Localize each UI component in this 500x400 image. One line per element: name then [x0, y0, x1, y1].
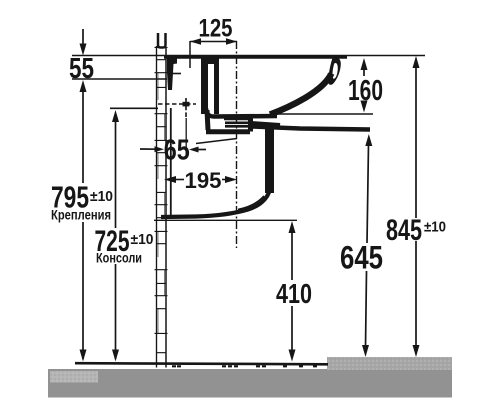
svg-text:Крепления: Крепления	[51, 208, 111, 223]
svg-text:645: 645	[340, 240, 383, 276]
bolt cross vertical	[185, 98, 187, 117]
dim 55 upper arrow	[82, 29, 84, 45]
bowl inner curve	[270, 74, 331, 115]
dim 725 down arrow	[112, 350, 119, 362]
dim 795 line lower	[82, 222, 84, 359]
svg-text:±10: ±10	[131, 231, 154, 248]
svg-text:160: 160	[348, 75, 383, 107]
dim 725 line lower	[115, 264, 117, 359]
dim 125 right arrow	[226, 38, 237, 45]
wall brick joints	[155, 47, 168, 352]
shroud back edge at wall	[170, 108, 172, 217]
shroud curve	[161, 183, 271, 217]
flange step tick	[172, 73, 181, 75]
dim 160 lower shaft	[363, 101, 365, 104]
dim 410 lower line	[291, 306, 293, 352]
wall fixing channel (u-shape above rim)	[158, 33, 166, 48]
dim 845 down arrow	[413, 345, 420, 357]
svg-text:±10: ±10	[424, 220, 446, 236]
bolt axis dashed line	[158, 103, 196, 105]
dim 725 up arrow	[112, 110, 119, 122]
dim 410 down arrow	[289, 350, 296, 362]
extension line x188.5 at 65 dim	[185, 118, 187, 158]
dim 645 up arrow	[365, 134, 372, 146]
basin back hanging flange	[167, 57, 177, 90]
dim 725 line upper	[115, 120, 117, 228]
drain flange stack	[224, 118, 249, 121]
dim 645 down arrow	[362, 345, 369, 357]
dim 160 up arrow	[361, 58, 368, 70]
dim 65 left outside arrow	[140, 148, 157, 150]
basin back inner wall	[201, 58, 208, 114]
basin bottom outer thick	[251, 127, 370, 130]
dim 795 line upper	[82, 90, 84, 183]
trap pipe vertical	[265, 128, 274, 193]
dim 195 line	[170, 179, 184, 181]
wall right line (wall face)	[165, 47, 167, 368]
wall left line	[156, 46, 158, 368]
svg-text:125: 125	[199, 15, 233, 43]
svg-text:845: 845	[386, 214, 422, 247]
basin rim top thick	[164, 55, 347, 59]
floor slab gray	[48, 369, 452, 398]
basin back outer wall	[214, 64, 219, 114]
floor hatch dashes	[172, 365, 317, 367]
svg-text:410: 410	[276, 278, 312, 309]
drain boss outline	[206, 110, 251, 132]
dim 160 down arrow	[361, 101, 368, 113]
extension line pedestal bottom (410/645 upper)	[154, 219, 297, 221]
svg-text:65: 65	[164, 135, 190, 167]
dim 845 lower line	[415, 241, 417, 347]
dim 795 down arrow	[80, 350, 87, 362]
shroud inner curve	[238, 196, 264, 210]
dim 195 left arrow	[164, 176, 176, 183]
front rim bead with hole	[328, 57, 341, 85]
floor light patch left	[50, 371, 98, 383]
dim 410 up arrow	[289, 221, 296, 233]
back wall top join	[201, 58, 219, 64]
extension line x190 upper (125 left / 65 right)	[189, 41, 191, 68]
svg-text:55: 55	[69, 53, 94, 85]
dim 125 left arrow	[190, 38, 201, 45]
wall brick inner edges	[158, 73, 165, 333]
extension line rim top (55 upper / 845 upper)	[72, 55, 425, 57]
drain centerline dash-dot	[236, 41, 238, 248]
dim 195 right arrow	[225, 176, 237, 183]
bowl bottom inner line at drain	[206, 108, 277, 117]
dim 795 up arrow	[80, 80, 87, 92]
svg-text:Консоли: Консоли	[96, 251, 142, 266]
svg-text:195: 195	[185, 168, 222, 193]
extension line bowl lowest point (160 lower)	[272, 113, 373, 115]
extension line 55 lower (795 fixings level)	[72, 78, 167, 80]
dim 645 lower line	[366, 271, 367, 347]
floor line	[75, 363, 328, 364]
dim 65 right outside arrow	[189, 147, 199, 153]
extension line consoles (725)	[110, 107, 158, 109]
console hidden edge under basin	[196, 139, 237, 144]
svg-text:±10: ±10	[90, 188, 113, 205]
dim 125 line	[190, 41, 237, 43]
dim 845 up arrow	[413, 56, 420, 68]
bolt center blob	[183, 102, 190, 107]
raised platform right	[327, 357, 452, 370]
